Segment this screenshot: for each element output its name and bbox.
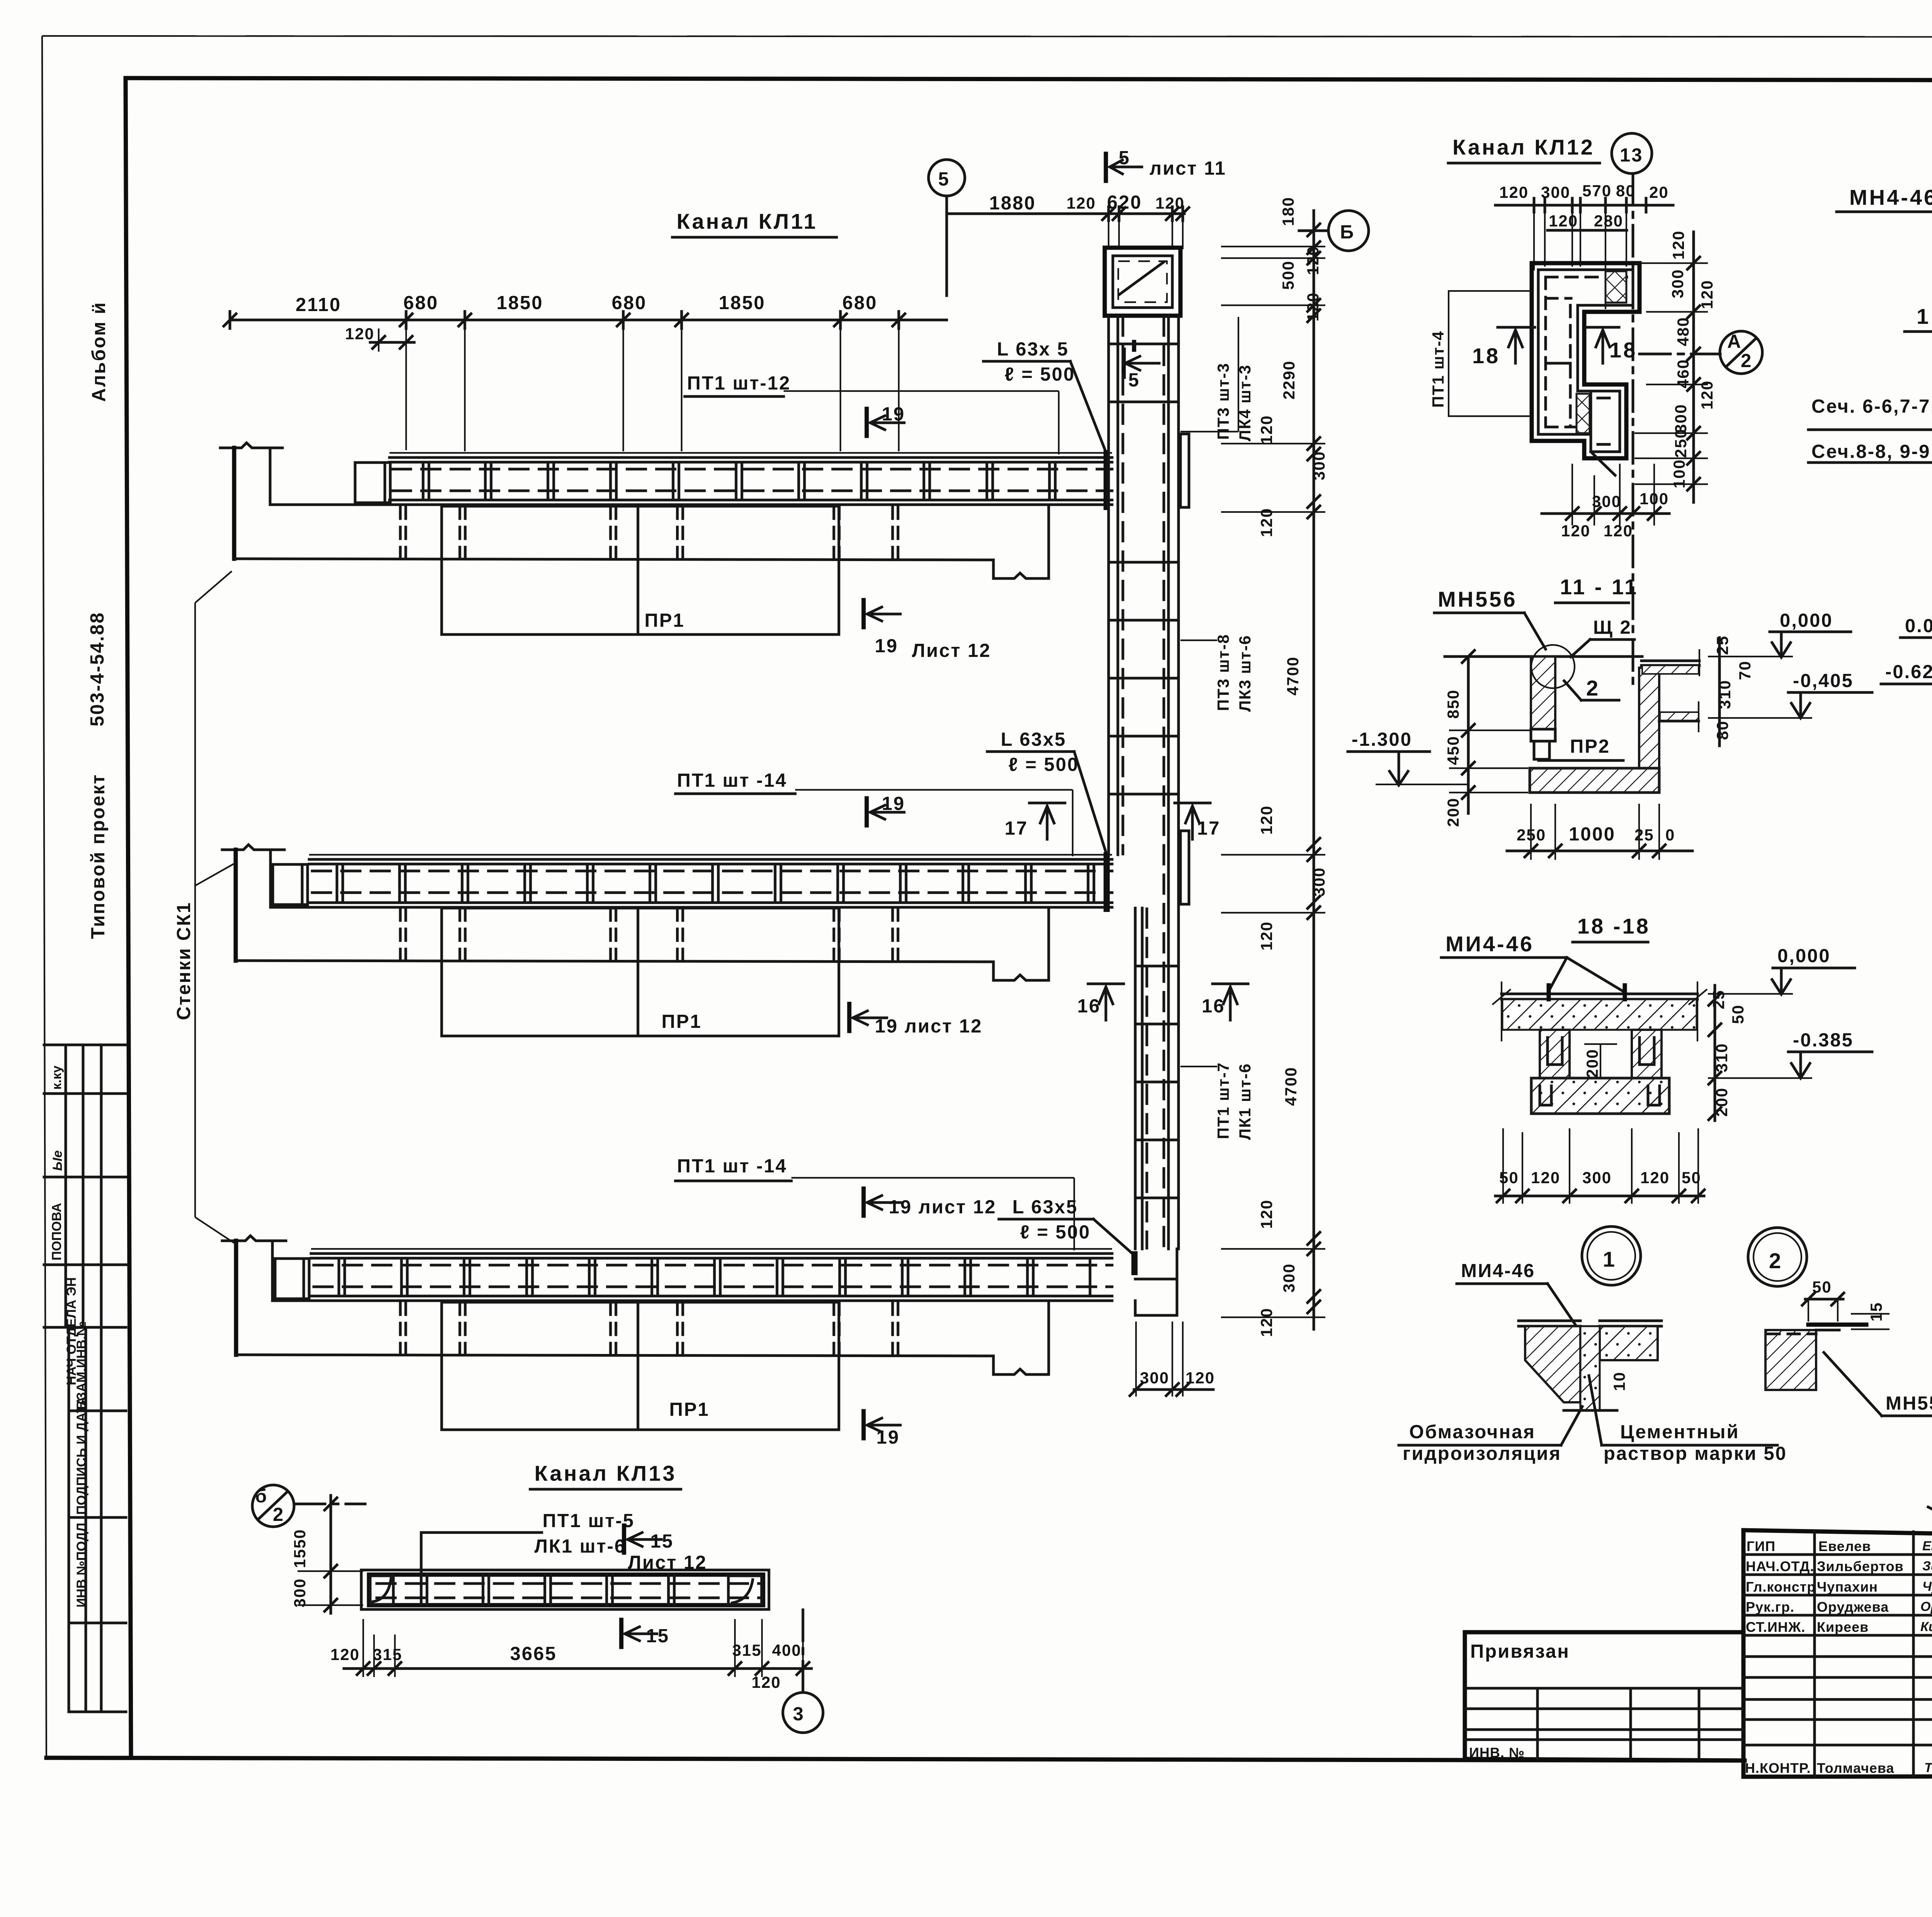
svg-text:18: 18 <box>1472 344 1500 368</box>
section mark 19 lowest ch3 <box>862 1411 866 1438</box>
grid circle 3 <box>783 1692 823 1733</box>
section mark 15 top <box>622 1526 626 1553</box>
svg-text:ПТ1 шт-5: ПТ1 шт-5 <box>543 1510 634 1531</box>
left dim chain 11-11 <box>1467 657 1470 813</box>
svg-text:19 лист 12: 19 лист 12 <box>889 1197 997 1218</box>
ground line 11-11 <box>1445 655 1642 658</box>
svg-text:16: 16 <box>1077 996 1101 1017</box>
left vertical dim KL13 <box>330 1495 332 1613</box>
svg-text:250: 250 <box>1517 826 1546 844</box>
angle steel mark ch1 junction <box>1104 450 1110 510</box>
svg-text:2110: 2110 <box>296 294 341 315</box>
svg-text:13: 13 <box>1620 145 1643 166</box>
svg-text:ПТ3 шт-8: ПТ3 шт-8 <box>1214 634 1232 711</box>
title block <box>1465 1507 1932 1821</box>
hidden dashed verticals ch1 <box>400 507 898 559</box>
svg-text:МИ4-46: МИ4-46 <box>1461 1260 1535 1281</box>
order number 10028/2 <box>1928 1507 1932 1531</box>
column rails upper <box>1107 316 1110 855</box>
floor slab 18-18 <box>1502 993 1697 995</box>
end box right KL13 <box>728 1576 762 1604</box>
svg-text:120: 120 <box>1155 194 1185 212</box>
rungs ch2 <box>337 864 1094 903</box>
svg-text:Чупахин: Чупахин <box>1817 1579 1878 1595</box>
bottom dims 11-11 <box>1507 850 1692 852</box>
svg-text:2290: 2290 <box>1280 361 1298 400</box>
channel band ch2 <box>309 854 1112 856</box>
left margin: album text <box>87 301 109 939</box>
svg-text:Рук.гр.: Рук.гр. <box>1746 1599 1794 1615</box>
svg-text:ПР1: ПР1 <box>662 1011 702 1032</box>
privyazan table <box>1465 1630 1743 1635</box>
svg-text:ЛК4 шт-3: ЛК4 шт-3 <box>1236 364 1254 441</box>
svg-text:50: 50 <box>1682 1169 1701 1187</box>
svg-text:Обмазочная: Обмазочная <box>1409 1422 1536 1442</box>
svg-text:20: 20 <box>1649 183 1669 201</box>
svg-text:5: 5 <box>1119 148 1130 168</box>
svg-text:80: 80 <box>1616 182 1636 200</box>
pedestal walls <box>1540 1030 1570 1078</box>
svg-text:120: 120 <box>330 1645 360 1664</box>
svg-text:300: 300 <box>1592 492 1621 510</box>
svg-text:ПР1: ПР1 <box>645 610 685 631</box>
section mark 19 lower ch2 + list 12 <box>847 1004 852 1031</box>
bottom dim chain KL13 <box>344 1667 811 1670</box>
svg-text:МИ4-46: МИ4-46 <box>1446 932 1534 956</box>
svg-text:120: 120 <box>1531 1169 1560 1187</box>
svg-text:180: 180 <box>1279 197 1297 226</box>
underlay outline ch1 <box>234 559 993 560</box>
dimension chain 2110 680 1850 680 1850 680 <box>230 319 947 321</box>
svg-text:L 63x 5: L 63x 5 <box>997 339 1069 360</box>
svg-text:120: 120 <box>1561 522 1590 540</box>
pit left wall <box>1531 657 1555 729</box>
rungs ch3 <box>339 1258 1090 1296</box>
wall SK1 left end ch2 <box>222 845 284 850</box>
right floor slabs <box>1641 660 1699 662</box>
section mark 15 bottom <box>619 1620 624 1647</box>
svg-text:-0.385: -0.385 <box>1793 1030 1854 1051</box>
svg-text:Кир: Кир <box>1920 1619 1932 1634</box>
svg-text:к.ку: к.ку <box>49 1066 64 1090</box>
slashes on chain <box>1308 224 1320 1313</box>
hidden dashed verticals ch3 <box>400 1303 898 1355</box>
svg-text:ℓ = 500: ℓ = 500 <box>1005 364 1075 385</box>
svg-text:120: 120 <box>345 325 374 343</box>
PR1 plate rect ch3 <box>442 1302 839 1430</box>
section mark 19 lower ch1 <box>862 600 866 627</box>
svg-text:лист 11: лист 11 <box>1150 158 1226 179</box>
svg-text:300: 300 <box>1140 1369 1169 1387</box>
svg-text:120: 120 <box>1304 246 1322 275</box>
KL13 band <box>361 1570 769 1609</box>
detail circle 1 <box>1582 1226 1641 1285</box>
svg-text:120: 120 <box>1304 292 1322 321</box>
svg-text:25: 25 <box>1713 635 1731 655</box>
svg-text:Лист 12: Лист 12 <box>912 640 991 661</box>
svg-text:ПОДПИСЬ И ДАТА: ПОДПИСЬ И ДАТА <box>74 1397 89 1515</box>
svg-text:ПТ1 шт -14: ПТ1 шт -14 <box>677 770 787 791</box>
svg-text:16: 16 <box>1202 996 1225 1017</box>
svg-text:-0.625: -0.625 <box>1885 662 1932 682</box>
svg-text:Щ 2: Щ 2 <box>1593 617 1632 638</box>
svg-text:2: 2 <box>1586 676 1600 700</box>
svg-text:19 лист 12: 19 лист 12 <box>875 1016 983 1037</box>
pit bottom slab <box>1530 768 1659 793</box>
rungs KL13 <box>421 1575 674 1605</box>
svg-text:ЛК1 шт-6: ЛК1 шт-6 <box>534 1536 626 1557</box>
signature table <box>1743 1530 1932 1535</box>
svg-text:100: 100 <box>1670 459 1688 488</box>
section mark 19 ch2 top <box>865 798 869 825</box>
svg-text:19: 19 <box>876 1427 900 1448</box>
svg-text:120: 120 <box>1257 921 1276 951</box>
column bottom end box <box>1134 1301 1137 1315</box>
svg-text:ℓ = 500: ℓ = 500 <box>1009 754 1079 775</box>
column rungs <box>1109 344 1179 1198</box>
svg-text:400: 400 <box>772 1641 801 1659</box>
leader Stenki SK1 <box>173 571 237 1245</box>
tick horizontals <box>1221 247 1325 1317</box>
svg-text:300: 300 <box>291 1578 309 1607</box>
svg-text:300: 300 <box>1582 1169 1612 1187</box>
svg-text:Канал КЛ13: Канал КЛ13 <box>534 1461 677 1485</box>
svg-text:680: 680 <box>612 293 647 313</box>
footing block <box>1531 1078 1669 1114</box>
svg-text:680: 680 <box>842 293 878 313</box>
svg-text:ПТ1 шт-7: ПТ1 шт-7 <box>1214 1062 1232 1139</box>
svg-text:300: 300 <box>1310 867 1328 896</box>
svg-text:L 63x5: L 63x5 <box>1012 1197 1078 1218</box>
svg-text:-1.300: -1.300 <box>1352 729 1412 750</box>
svg-text:Зильбертов: Зильбертов <box>1817 1558 1904 1574</box>
svg-text:5: 5 <box>1128 370 1140 391</box>
rotated labels PT1 sht-7 LK1 sht-6 <box>1180 1066 1217 1067</box>
svg-text:1550: 1550 <box>291 1529 309 1568</box>
section mark 19 ch3 + list 12 <box>862 1189 866 1216</box>
channel band ch3 <box>311 1248 1112 1250</box>
svg-text:120: 120 <box>1698 280 1716 309</box>
svg-text:ℓ = 500: ℓ = 500 <box>1020 1222 1091 1243</box>
top square box <box>1105 248 1180 316</box>
svg-text:ПР2: ПР2 <box>1570 736 1610 757</box>
svg-text:Евс.ф: Евс.ф <box>1922 1539 1932 1553</box>
rungs ch1 <box>423 462 1055 500</box>
svg-text:ПТ1 шт-12: ПТ1 шт-12 <box>687 373 791 394</box>
svg-text:0: 0 <box>1665 826 1675 844</box>
svg-text:50: 50 <box>1729 1004 1747 1024</box>
svg-text:1880: 1880 <box>989 193 1036 214</box>
svg-text:120: 120 <box>1698 380 1716 410</box>
extension verticals KL12 top <box>1534 212 1626 309</box>
svg-text:Гл.констр: Гл.констр <box>1746 1579 1816 1595</box>
svg-text:Чуп: Чуп <box>1922 1579 1932 1594</box>
svg-text:480: 480 <box>1674 317 1692 346</box>
end box left KL13 <box>370 1576 393 1604</box>
svg-text:4700: 4700 <box>1284 657 1302 696</box>
wall SK1 left end ch3 <box>222 1236 286 1241</box>
svg-text:Б: Б <box>1340 222 1355 243</box>
svg-text:1: 1 <box>1917 304 1930 328</box>
PR1 plate rect ch1 <box>442 506 839 634</box>
grid circle b/2 <box>252 1485 294 1527</box>
grid circle 13 <box>1612 133 1652 173</box>
svg-text:ВЗАМ.ИНВ.№: ВЗАМ.ИНВ.№ <box>74 1321 89 1410</box>
svg-text:120: 120 <box>1257 1199 1276 1229</box>
svg-text:-0,405: -0,405 <box>1793 670 1854 691</box>
svg-text:1850: 1850 <box>497 293 543 313</box>
svg-text:2: 2 <box>273 1504 284 1525</box>
rotated labels PT3 sht-3 LK4 sht-3 <box>1180 431 1238 432</box>
hidden dashed verticals ch2 <box>400 909 898 961</box>
svg-text:120: 120 <box>1499 183 1529 201</box>
inner well rect lower <box>1591 391 1620 452</box>
svg-text:17: 17 <box>1197 818 1221 839</box>
left margin: upper signature table <box>44 1045 126 1385</box>
detail 1 drawing: slabs and joint <box>1519 1320 1580 1322</box>
svg-text:МН4-46: МН4-46 <box>1849 185 1932 209</box>
svg-text:50: 50 <box>1499 1169 1519 1187</box>
svg-text:120: 120 <box>1257 805 1276 835</box>
svg-text:620: 620 <box>1107 192 1142 213</box>
rotated labels PT3 sht-8 LK3 sht-6 <box>1180 640 1217 641</box>
svg-text:1000: 1000 <box>1569 824 1616 845</box>
svg-text:Альбом ӥ: Альбом ӥ <box>88 301 109 402</box>
svg-text:80: 80 <box>1713 720 1731 740</box>
svg-text:680: 680 <box>403 293 439 313</box>
KL12 plan outline <box>1532 263 1639 458</box>
dashed inner lines KL12 <box>1546 277 1627 444</box>
svg-text:120: 120 <box>1640 1169 1670 1187</box>
section mark 5 with arrow (top) <box>1104 154 1108 181</box>
svg-text:100: 100 <box>1639 490 1669 508</box>
svg-text:120: 120 <box>1185 1369 1215 1387</box>
svg-text:ЛК1 шт-6: ЛК1 шт-6 <box>1236 1063 1254 1140</box>
angle steel mark ch2 junction <box>1104 852 1110 912</box>
svg-text:Оруд: Оруд <box>1920 1599 1932 1614</box>
svg-text:15: 15 <box>646 1626 670 1647</box>
svg-text:315: 315 <box>732 1641 762 1659</box>
detail circle 2 <box>1531 645 1575 688</box>
svg-text:ГИП: ГИП <box>1747 1538 1776 1554</box>
top dim chain KL12 <box>1495 204 1673 207</box>
section mark 5 inside column <box>1132 342 1136 350</box>
svg-text:25: 25 <box>1709 990 1728 1009</box>
detail 2 drawing <box>1765 1330 1816 1390</box>
svg-text:2: 2 <box>1769 1249 1783 1273</box>
svg-text:19: 19 <box>882 793 905 814</box>
svg-text:МН556: МН556 <box>1886 1393 1932 1414</box>
channel band ch1 <box>389 452 1112 454</box>
svg-text:70: 70 <box>1736 660 1754 680</box>
small side plates on right rail <box>1180 434 1189 507</box>
svg-text:300: 300 <box>1280 1263 1298 1293</box>
svg-text:503-4-54.88: 503-4-54.88 <box>87 612 108 726</box>
svg-text:120: 120 <box>1257 508 1276 537</box>
bottom dims KL12 <box>1571 464 1573 526</box>
svg-text:Типовой проект: Типовой проект <box>88 774 109 939</box>
pit right wall <box>1639 668 1659 768</box>
svg-text:СТ.ИНЖ.: СТ.ИНЖ. <box>1746 1619 1805 1635</box>
svg-text:17: 17 <box>1005 818 1028 839</box>
svg-text:ПОПОВА: ПОПОВА <box>49 1203 64 1260</box>
detail circle 2 <box>1748 1228 1807 1286</box>
svg-text:120: 120 <box>1549 212 1578 230</box>
end box ch2 <box>273 864 308 905</box>
underlay outline ch3 <box>236 1355 993 1356</box>
svg-text:Ые: Ые <box>50 1150 65 1171</box>
svg-text:0.000: 0.000 <box>1905 616 1932 636</box>
PR1 plate rect ch2 <box>442 908 839 1036</box>
svg-text:Тол: Тол <box>1924 1761 1932 1775</box>
svg-text:120: 120 <box>1257 415 1276 444</box>
svg-text:Зил: Зил <box>1922 1559 1932 1573</box>
svg-text:300: 300 <box>1668 269 1687 298</box>
svg-text:460: 460 <box>1674 359 1692 388</box>
svg-text:ПТ1 шт -14: ПТ1 шт -14 <box>677 1156 787 1177</box>
svg-text:Стенки СК1: Стенки СК1 <box>173 902 194 1020</box>
underlay outline ch2 <box>236 961 993 962</box>
svg-text:850: 850 <box>1444 689 1462 719</box>
dimension chain 1880-120-620-120 <box>947 213 1184 215</box>
section mark 19 ch1 top <box>865 409 869 436</box>
svg-text:11 - 11: 11 - 11 <box>1560 575 1638 599</box>
svg-text:Евелев: Евелев <box>1818 1538 1871 1554</box>
svg-text:0,000: 0,000 <box>1777 946 1831 966</box>
svg-text:ЛК3 шт-6: ЛК3 шт-6 <box>1236 635 1254 712</box>
svg-text:120: 120 <box>1257 1308 1276 1337</box>
svg-text:120: 120 <box>752 1673 781 1691</box>
svg-text:НАЧ.ОТД.: НАЧ.ОТД. <box>1746 1558 1814 1574</box>
anchor plates on slab <box>1547 985 1551 999</box>
svg-text:120: 120 <box>1604 522 1633 540</box>
svg-text:ИНВ. №: ИНВ. № <box>1469 1745 1525 1761</box>
svg-text:10: 10 <box>1610 1371 1628 1391</box>
svg-text:Привязан: Привязан <box>1470 1641 1570 1662</box>
left margin: lower stamp table <box>69 1321 126 1712</box>
svg-text:L 63x5: L 63x5 <box>1001 729 1066 750</box>
bottom small dims under column <box>1130 1322 1215 1397</box>
svg-text:450: 450 <box>1444 736 1462 765</box>
svg-text:Канал КЛ12: Канал КЛ12 <box>1452 135 1595 159</box>
svg-text:120: 120 <box>1669 230 1687 260</box>
svg-text:Сеч.8-8, 9-9: Сеч.8-8, 9-9 <box>1811 441 1930 462</box>
svg-text:Сеч. 6-6,7-7,10-10: Сеч. 6-6,7-7,10-10 <box>1811 396 1932 417</box>
svg-text:Толмачева: Толмачева <box>1817 1760 1895 1776</box>
svg-text:0,000: 0,000 <box>1780 610 1833 631</box>
svg-text:ИНВ №ПОДЛ: ИНВ №ПОДЛ <box>74 1523 89 1607</box>
svg-text:Киреев: Киреев <box>1817 1619 1869 1635</box>
bottom dims 18-18 <box>1495 1195 1704 1197</box>
svg-text:300: 300 <box>1541 183 1570 201</box>
svg-text:5: 5 <box>938 169 950 190</box>
end box ch3 <box>275 1259 309 1299</box>
svg-text:4700: 4700 <box>1282 1067 1300 1106</box>
angle steel mark ch3 junction <box>1131 1251 1138 1275</box>
svg-text:18: 18 <box>1609 338 1637 362</box>
svg-text:315: 315 <box>373 1645 402 1664</box>
svg-text:120: 120 <box>1066 194 1096 212</box>
grid circle 5 <box>929 160 965 196</box>
right dim chain KL12 <box>1692 232 1695 502</box>
svg-text:3665: 3665 <box>510 1643 557 1664</box>
svg-text:570: 570 <box>1582 182 1612 200</box>
svg-text:19: 19 <box>882 404 905 425</box>
svg-text:200: 200 <box>1583 1049 1601 1078</box>
svg-text:3: 3 <box>793 1704 804 1725</box>
svg-text:ПР1: ПР1 <box>669 1399 709 1420</box>
svg-text:Н.КОНТР.: Н.КОНТР. <box>1745 1760 1811 1776</box>
axis A/2 circle <box>1639 353 1720 356</box>
svg-text:ПТ1 шт-4: ПТ1 шт-4 <box>1429 330 1447 408</box>
svg-text:б: б <box>255 1486 268 1507</box>
svg-text:18 -18: 18 -18 <box>1577 914 1650 938</box>
column rails lower (below ch2) <box>1134 908 1137 1249</box>
svg-text:2: 2 <box>1741 350 1752 371</box>
grid circle B <box>1328 211 1369 251</box>
svg-text:ПТ3 шт-3: ПТ3 шт-3 <box>1214 362 1232 440</box>
wall SK1 left end ch1 <box>220 443 282 448</box>
crosshatched anchor block top <box>1605 271 1626 303</box>
svg-text:Канал КЛ11: Канал КЛ11 <box>677 209 818 233</box>
end box ch1 <box>355 463 390 503</box>
svg-text:Оруджева: Оруджева <box>1817 1599 1889 1615</box>
svg-text:А: А <box>1727 331 1742 352</box>
svg-text:200: 200 <box>1444 798 1462 827</box>
svg-text:25: 25 <box>1634 826 1654 844</box>
svg-text:15: 15 <box>650 1531 674 1552</box>
svg-text:19: 19 <box>875 636 898 657</box>
svg-text:МН556: МН556 <box>1438 587 1517 611</box>
svg-text:15: 15 <box>1867 1302 1885 1322</box>
svg-text:500: 500 <box>1279 260 1297 290</box>
svg-text:Цементный: Цементный <box>1620 1422 1740 1442</box>
crosshatched anchor block lower <box>1577 394 1590 433</box>
svg-text:300: 300 <box>1310 451 1328 480</box>
svg-text:280: 280 <box>1594 212 1623 230</box>
svg-text:250: 250 <box>1672 429 1690 458</box>
svg-text:1850: 1850 <box>719 293 765 313</box>
svg-text:1: 1 <box>1603 1247 1617 1271</box>
